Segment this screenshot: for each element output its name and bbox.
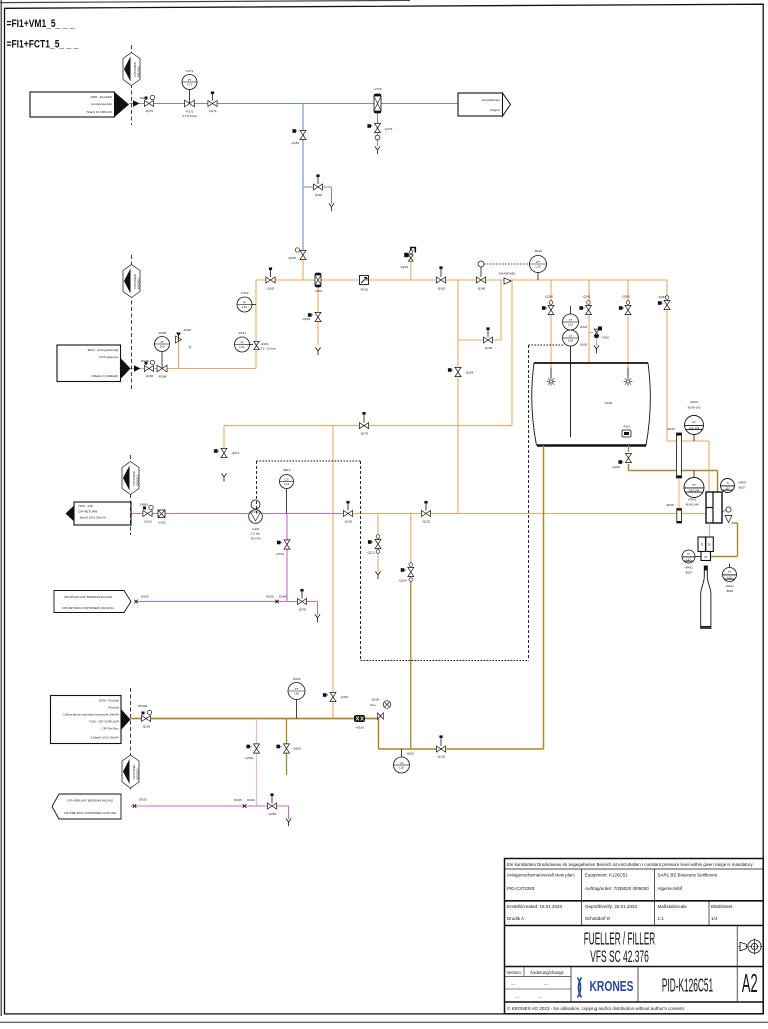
svg-text:L30: L30	[294, 691, 299, 695]
svg-text:-Q108: -Q108	[484, 346, 493, 350]
svg-text:PI: PI	[161, 340, 164, 344]
svg-text:5,5 - 6,5 bar: 5,5 - 6,5 bar	[261, 347, 276, 351]
svg-text:-P165: -P165	[183, 328, 191, 332]
svg-text:, DN40: , DN40	[246, 798, 256, 802]
svg-text:CO2 gaseous: CO2 gaseous	[99, 355, 118, 359]
svg-text:-Q100: -Q100	[371, 698, 379, 702]
svg-text:LS: LS	[400, 761, 404, 765]
svg-text:DN25: DN25	[266, 595, 274, 599]
svg-text:2,5bar above saturation pressu: 2,5bar above saturation pressure 34m³/h	[63, 713, 119, 717]
svg-text:CUSTOMER: CUSTOMER	[132, 765, 136, 780]
svg-text:-Q182: -Q182	[291, 141, 300, 145]
svg-text:+PAA1: +PAA1	[690, 400, 699, 404]
svg-text:PID-C372283: PID-C372283	[507, 886, 535, 891]
svg-text:-P162: -P162	[240, 291, 248, 295]
svg-text:. 2,5barG ±0,5 26m³/h: . 2,5barG ±0,5 26m³/h	[89, 736, 120, 740]
svg-text:Geprüft/verify: 25.01.2023: Geprüft/verify: 25.01.2023	[585, 904, 638, 909]
svg-text:----: ----	[511, 983, 516, 987]
svg-text:-Q170: -Q170	[145, 109, 154, 113]
svg-text:-Q121: -Q121	[367, 551, 376, 555]
svg-text:----: ----	[544, 983, 549, 987]
svg-text:141-142: 141-142	[689, 426, 700, 430]
svg-text:-P101: -P101	[623, 425, 631, 429]
svg-text:L02: L02	[727, 575, 732, 579]
svg-text:Verschliesser: Verschliesser	[482, 98, 500, 102]
svg-text:Version: Version	[507, 970, 522, 975]
svg-text:-Q210: -Q210	[340, 695, 349, 699]
svg-text:L71: L71	[187, 82, 192, 86]
svg-text:-Q120: -Q120	[344, 520, 353, 524]
svg-text:© KRONES AG 2023 - No utilisat: © KRONES AG 2023 - No utilisation, copyi…	[507, 1005, 685, 1011]
svg-text:-Q75D: -Q75D	[268, 812, 278, 816]
svg-text:Algeria-Sétif: Algeria-Sétif	[658, 886, 683, 891]
svg-text:-Q163: -Q163	[400, 265, 409, 269]
svg-text:CUSTOMER: CUSTOMER	[133, 62, 137, 77]
svg-text:L01: L01	[568, 322, 573, 326]
svg-text:FUELLER / FILLER: FUELLER / FILLER	[584, 928, 655, 949]
svg-text:-Q184: -Q184	[314, 193, 323, 197]
svg-text:compressed air: compressed air	[91, 102, 112, 106]
svg-text:TT: TT	[728, 570, 732, 574]
svg-text:CUSTOMER: CUSTOMER	[132, 471, 136, 486]
svg-text:----: ----	[538, 995, 543, 999]
svg-text:+V100: +V100	[355, 726, 364, 730]
svg-text:Drudik A: Drudik A	[507, 916, 524, 921]
svg-text:----: ----	[515, 995, 520, 999]
svg-text:L20: L20	[535, 264, 540, 268]
svg-text:-B102: -B102	[726, 589, 734, 593]
svg-text:-Q241: -Q241	[582, 295, 591, 299]
svg-text:TT: TT	[569, 318, 573, 322]
svg-text:30 m³/h: 30 m³/h	[251, 537, 261, 541]
svg-text:-Q169: -Q169	[302, 317, 311, 321]
svg-text:, DN40: , DN40	[278, 595, 288, 599]
svg-text:-Q243: -Q243	[658, 295, 667, 299]
svg-text:-B143-144: -B143-144	[685, 503, 699, 507]
svg-text:KRONES: KRONES	[136, 768, 140, 779]
svg-text:DN25: DN25	[141, 595, 149, 599]
svg-text:LT: LT	[569, 334, 572, 338]
svg-text:9100 - Produkt: 9100 - Produkt	[99, 699, 119, 703]
svg-text:PI: PI	[243, 301, 246, 305]
svg-text:1/4: 1/4	[711, 916, 718, 921]
svg-text:=FI1+VM1_5_ _ _: =FI1+VM1_5_ _ _	[7, 18, 75, 30]
svg-text:1000 - Druckluft: 1000 - Druckluft	[90, 95, 112, 99]
svg-text:Änderung/change: Änderung/change	[530, 970, 565, 975]
svg-text:Product: Product	[108, 706, 119, 710]
svg-text:Equipment: K126C51: Equipment: K126C51	[585, 873, 628, 878]
svg-text:-Q122: -Q122	[422, 520, 431, 524]
svg-text:=FI1+FCT1_5_ _ _: =FI1+FCT1_5_ _ _	[7, 38, 79, 50]
svg-text:-Q75A: -Q75A	[275, 552, 284, 556]
svg-text:-C100: -C100	[604, 401, 613, 405]
svg-text:-Q102: -Q102	[437, 755, 446, 759]
svg-text:-Y200: -Y200	[601, 336, 609, 340]
svg-text:-Q703: -Q703	[298, 608, 307, 612]
svg-text:L17: L17	[686, 557, 691, 561]
svg-text:PI: PI	[687, 552, 690, 556]
svg-text:-V120: -V120	[158, 521, 166, 525]
svg-text:Anlagenschema/overall view pla: Anlagenschema/overall view plan:	[507, 873, 575, 878]
svg-text:-Q104: -Q104	[398, 579, 407, 583]
svg-text:Blatt/sheet: Blatt/sheet	[711, 904, 733, 909]
svg-text:-B120: -B120	[534, 249, 542, 253]
svg-text:SARL BS Boissons Setifienne: SARL BS Boissons Setifienne	[658, 873, 718, 878]
svg-text:-P108: -P108	[158, 331, 166, 335]
svg-text:1:1: 1:1	[658, 916, 665, 921]
svg-text:-Q110: -Q110	[143, 520, 151, 524]
svg-text:VFS SC 42.376: VFS SC 42.376	[590, 947, 649, 966]
svg-text:-Q164: -Q164	[465, 371, 474, 375]
svg-text:-B101: -B101	[580, 325, 588, 329]
svg-text:7100 - CIP-VORLAUF: 7100 - CIP-VORLAUF	[89, 720, 120, 724]
svg-text:+PAA1: +PAA1	[684, 566, 693, 570]
svg-text:CIP-VORLAUF BODENKÜHLUNG: CIP-VORLAUF BODENKÜHLUNG	[67, 799, 114, 803]
svg-text:KRONES: KRONES	[137, 278, 141, 289]
svg-text:DN100: DN100	[138, 704, 148, 708]
svg-text:CIP-RETURN CONTAINER COOLING: CIP-RETURN CONTAINER COOLING	[62, 606, 114, 610]
svg-text:-P161: -P161	[238, 331, 246, 335]
svg-text:Y: Y	[189, 345, 192, 350]
svg-text:-B107: -B107	[738, 486, 746, 490]
svg-text:Klv+..: Klv+..	[370, 703, 378, 707]
svg-text:-B110: -B110	[407, 752, 415, 756]
svg-text:PID-K126C51: PID-K126C51	[662, 976, 713, 997]
svg-text:PT: PT	[536, 260, 540, 264]
svg-text:1,5 bar: 1,5 bar	[251, 532, 260, 536]
svg-text:L00: L00	[568, 338, 573, 342]
svg-text:-Q161: -Q161	[266, 287, 275, 291]
svg-text:-W102: -W102	[666, 427, 675, 431]
svg-text:CS: CS	[284, 478, 288, 482]
svg-text:-Q172: -Q172	[360, 432, 369, 436]
svg-text:-Q240: -Q240	[545, 295, 554, 299]
svg-text:-B100: -B100	[580, 343, 588, 347]
svg-text:PT: PT	[692, 421, 696, 425]
svg-text:L13: L13	[284, 482, 289, 486]
svg-text:-V169: -V169	[314, 289, 322, 293]
svg-text:-B141-142: -B141-142	[687, 406, 701, 410]
svg-text:. 7barG ±1 18Nm³/h: . 7barG ±1 18Nm³/h	[85, 110, 113, 114]
svg-text:-B127: -B127	[685, 571, 693, 575]
svg-text:7100 - CIP: 7100 - CIP	[78, 504, 93, 508]
svg-text:-V179: -V179	[373, 87, 381, 91]
svg-text:-Q75G: -Q75G	[244, 756, 254, 760]
svg-text:+PAA1: +PAA1	[738, 481, 747, 485]
svg-text:KRONES: KRONES	[136, 475, 140, 486]
svg-text:-Q230: -Q230	[612, 465, 621, 469]
svg-text:143-144: 143-144	[689, 488, 700, 492]
svg-text:-Q242: -Q242	[622, 295, 631, 299]
svg-text:. 15barG ±1 930kg/h: . 15barG ±1 930kg/h	[90, 374, 118, 378]
svg-text:-Q183: -Q183	[288, 256, 297, 260]
svg-text:L61: L61	[239, 345, 244, 349]
svg-text:-G101: -G101	[251, 527, 259, 531]
svg-text:PT: PT	[295, 687, 299, 691]
svg-text:-B130: -B130	[292, 677, 300, 681]
svg-text:5010 - CO2 gasförmig: 5010 - CO2 gasförmig	[88, 348, 119, 352]
svg-text:+PAA1: +PAA1	[688, 498, 697, 502]
svg-text:KRONES: KRONES	[137, 66, 141, 77]
svg-text:-R161: -R161	[261, 342, 270, 346]
svg-text:Ein konstantes Druckniveau im: Ein konstantes Druckniveau im angegebene…	[507, 862, 753, 867]
svg-text:DN25: DN25	[139, 798, 147, 802]
svg-text:CUSTOMER: CUSTOMER	[133, 274, 137, 289]
svg-text:-R162: -R162	[360, 288, 369, 292]
svg-text:PT: PT	[188, 78, 192, 82]
svg-text:L62: L62	[242, 305, 247, 309]
svg-text:-Q166: -Q166	[477, 287, 486, 291]
svg-text:-W100: -W100	[665, 503, 674, 507]
svg-text:-Q105: -Q105	[293, 747, 302, 751]
svg-text:-P171: -P171	[185, 69, 193, 73]
svg-text:-R171: -R171	[185, 110, 194, 114]
svg-text:TI: TI	[726, 481, 729, 485]
svg-text:-Q162: -Q162	[437, 287, 446, 291]
svg-text:L10: L10	[399, 765, 404, 769]
svg-text:+PAA1: +PAA1	[725, 584, 734, 588]
svg-text:CIP-PRE RUN CONTAINER COOLING: CIP-PRE RUN CONTAINER COOLING	[64, 811, 117, 815]
svg-text:Maßstab/scale: Maßstab/scale	[658, 904, 688, 909]
svg-text:CIP-RÜCKLAUF BODENKÜHLUNG: CIP-RÜCKLAUF BODENKÜHLUNG	[64, 595, 113, 599]
svg-text:-Q160: -Q160	[145, 374, 154, 378]
svg-text:Erstellt/created: 19.01.2023: Erstellt/created: 19.01.2023	[507, 904, 563, 909]
svg-text:-Q103: -Q103	[142, 725, 151, 729]
svg-text:-B113: -B113	[283, 468, 291, 472]
svg-text:CIP-RETURN: CIP-RETURN	[78, 510, 97, 514]
svg-text:5,7-6,5 bar: 5,7-6,5 bar	[182, 114, 197, 118]
svg-text:Auftrag/order: 7035020 /0050: Auftrag/order: 7035020 /005000	[585, 886, 649, 891]
svg-text:CIP Pre-Run: CIP Pre-Run	[102, 727, 120, 731]
svg-text:-R108: -R108	[158, 375, 167, 379]
svg-text:. 3barG ±0,5 26m³/h: . 3barG ±0,5 26m³/h	[78, 516, 106, 520]
svg-text:DN25: DN25	[234, 798, 242, 802]
svg-text:A2: A2	[742, 970, 758, 998]
svg-text:DN40/DN65: DN40/DN65	[499, 272, 516, 276]
svg-text:Schottdorf O: Schottdorf O	[585, 916, 611, 921]
svg-text:-Q271: -Q271	[231, 451, 240, 455]
svg-text:DN80: DN80	[140, 503, 148, 507]
svg-text:-Q171: -Q171	[208, 109, 217, 113]
svg-text:100: 100	[159, 344, 164, 348]
svg-text:-Q179: -Q179	[384, 127, 393, 131]
svg-text:Capper: Capper	[490, 108, 500, 112]
svg-text:107: 107	[725, 486, 730, 490]
svg-text:PI: PI	[241, 341, 244, 345]
svg-text:KRONES: KRONES	[590, 977, 634, 994]
svg-text:PT: PT	[692, 483, 696, 487]
